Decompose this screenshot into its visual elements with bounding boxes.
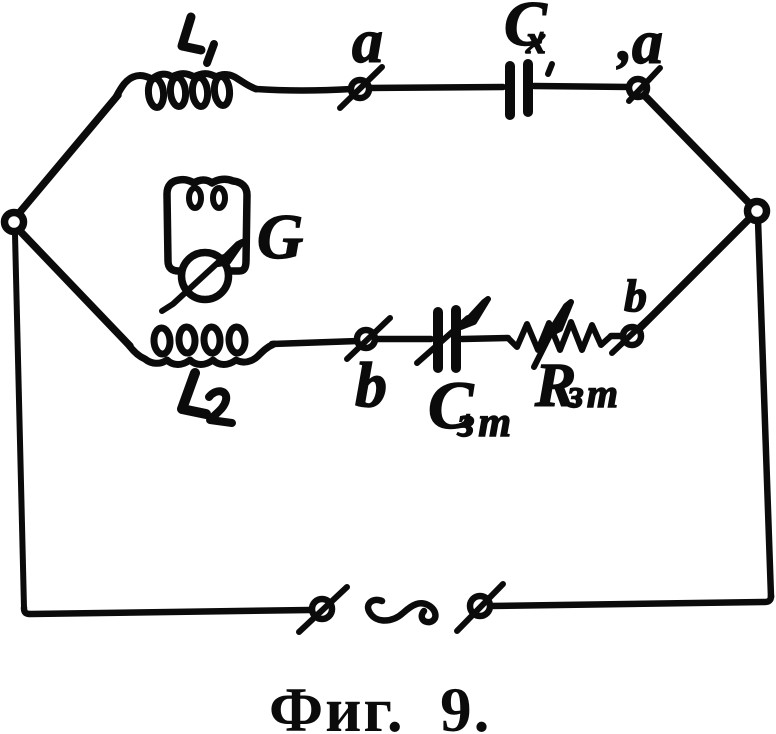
- svg-text:x: x: [525, 17, 546, 62]
- label L2: [182, 373, 232, 423]
- node a (binding post, left of Cx): [351, 80, 369, 98]
- wire Cэт to resistor Rэт: [462, 338, 508, 339]
- capacitor Cx left plate: [505, 66, 515, 115]
- svg-text:Фиг. 9.: Фиг. 9.: [269, 675, 491, 734]
- inductor L2: [128, 327, 274, 365]
- wire L1 to node a (left): [256, 89, 352, 91]
- inductor L1: [116, 74, 256, 108]
- wire right junction down (right side): [758, 220, 771, 597]
- slash through node b right: [612, 316, 651, 353]
- slash through node b left: [347, 318, 390, 359]
- wire left junction down (left side): [15, 234, 24, 608]
- wire node b to capacitor Cэт: [374, 336, 431, 343]
- terminal left (circle with slash): [312, 599, 332, 619]
- svg-text:G: G: [257, 201, 303, 272]
- variable arrow through Cэт: [417, 318, 468, 363]
- wire L2 to node b (left): [272, 341, 358, 344]
- wire node a to capacitor Cx: [368, 87, 503, 88]
- slash through node a: [340, 67, 382, 108]
- wire bottom right segment: [490, 596, 771, 606]
- AC source squiggle: [368, 600, 435, 622]
- galvanometer meter circle: [182, 253, 229, 300]
- tick mark right of Cx: [548, 64, 552, 74]
- wire bottom left segment: [24, 608, 310, 614]
- svg-text:зт: зт: [457, 400, 511, 446]
- svg-text:a: a: [352, 8, 383, 76]
- slash through right node a: [629, 68, 660, 101]
- svg-text:a: a: [632, 9, 663, 77]
- capacitor Cэт left plate: [433, 312, 443, 368]
- variable arrow through Rэт: [534, 327, 554, 367]
- label L1: [182, 17, 214, 63]
- resistor Rэт (zigzag): [508, 322, 611, 350]
- node b (binding post, right): [623, 327, 641, 345]
- node a (binding post, right): [629, 79, 647, 97]
- node b (binding post, left): [357, 330, 375, 348]
- galvanometer G frame: [167, 179, 247, 271]
- svg-text:зт: зт: [567, 371, 618, 416]
- capacitor Cэт right plate: [451, 310, 461, 368]
- node right junction (open circle): [748, 202, 767, 221]
- galvanometer needle: [162, 257, 224, 311]
- wire Rэт to node b (right): [611, 333, 624, 340]
- wire capacitor Cx to node a (right): [534, 86, 630, 87]
- terminal right (circle with slash): [470, 596, 490, 616]
- svg-text:,: ,: [616, 8, 633, 73]
- svg-text:b: b: [624, 270, 647, 321]
- wire left junction to L1: [20, 95, 118, 212]
- svg-text:b: b: [355, 349, 387, 420]
- wire right node b to right junction: [640, 218, 750, 328]
- wire left junction to L2: [20, 231, 130, 346]
- wire right node a to right junction: [645, 96, 750, 204]
- node left junction (open circle): [5, 213, 24, 232]
- capacitor Cx right plate: [523, 64, 533, 112]
